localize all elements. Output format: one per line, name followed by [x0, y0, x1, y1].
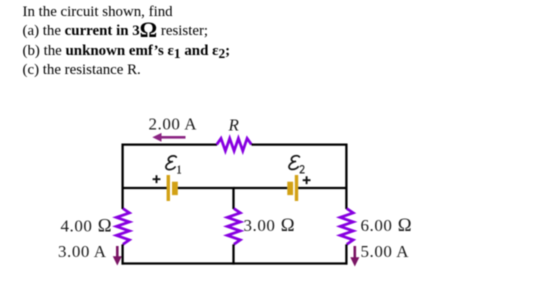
- svg-text:5.00 A: 5.00 A: [361, 242, 410, 261]
- wire middle vertical upper segment (node C down to 3 ohm): [232, 188, 234, 209]
- wire top-right segment (from resistor R to node B): [252, 143, 348, 145]
- resistor 6.00 ohm zigzag: [340, 209, 353, 245]
- label script-E emf1: [166, 156, 176, 170]
- wire bottom horizontal: [122, 262, 348, 264]
- wire middle vertical lower segment: [232, 244, 234, 264]
- wire left vertical upper segment: [121, 144, 123, 210]
- wire middle horizontal: battery emf2 to node B: [298, 187, 347, 189]
- battery emf1 long plate (+): [167, 175, 170, 201]
- label 5.00 A: [361, 242, 410, 261]
- plus sign of emf2: [303, 176, 311, 184]
- resistor 4.00 ohm zigzag: [116, 209, 129, 245]
- plus sign of emf1: [153, 175, 161, 183]
- label R: [228, 116, 240, 135]
- resistor R zigzag: [217, 138, 252, 151]
- svg-text:3.00 A: 3.00 A: [58, 242, 107, 261]
- wire middle horizontal: node A to battery emf1: [122, 187, 168, 189]
- wire middle horizontal: battery emf1 to node C: [178, 187, 235, 189]
- label 2.00 A: [149, 115, 198, 134]
- svg-text:3.00 Ω: 3.00 Ω: [244, 215, 296, 236]
- label 4.00 ohm: [61, 216, 113, 237]
- label 3.00 ohm: [244, 215, 296, 236]
- subscript 1 of emf1: [177, 165, 181, 174]
- current arrow 3.00 A (down, left branch): [113, 246, 122, 266]
- current arrow 2.00 A (pointing left): [152, 133, 185, 142]
- wire top-left segment (from node A to resistor R): [122, 143, 218, 145]
- svg-text:2.00 A: 2.00 A: [149, 115, 198, 134]
- label 6.00 ohm: [361, 215, 413, 236]
- wire left vertical lower segment: [121, 244, 123, 264]
- problem statement text: [23, 3, 231, 81]
- resistor 3.00 ohm zigzag: [227, 209, 240, 245]
- battery emf2 short plate (-): [287, 182, 293, 195]
- battery emf2 long plate (+): [295, 175, 298, 201]
- battery emf1 short plate (-): [172, 182, 178, 195]
- label 3.00 A: [58, 242, 107, 261]
- subscript 2 of emf2: [300, 166, 305, 174]
- svg-text:6.00 Ω: 6.00 Ω: [361, 215, 413, 236]
- wire right vertical lower segment: [345, 244, 347, 264]
- current arrow 5.00 A (down, right branch): [350, 246, 359, 267]
- svg-text:R: R: [228, 116, 240, 135]
- wire middle horizontal: node C to battery emf2: [234, 187, 288, 189]
- svg-text:4.00 Ω: 4.00 Ω: [61, 216, 113, 237]
- label script-E emf2: [289, 156, 299, 170]
- wire right vertical upper segment: [345, 144, 347, 210]
